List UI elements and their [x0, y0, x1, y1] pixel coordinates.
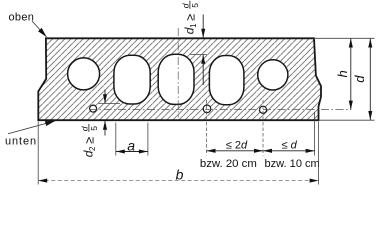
hole oval 4 — [209, 56, 244, 105]
hole-top extension line — [190, 53, 208, 55]
dim d1 lower arrow — [202, 55, 204, 85]
top extension line — [314, 37, 375, 39]
dim 2d extension left — [206, 100, 208, 156]
dim a extension left — [115, 123, 117, 156]
svg-text:unten: unten — [5, 136, 37, 148]
svg-text:2: 2 — [88, 146, 97, 151]
dim 2d extension right — [314, 112, 316, 156]
svg-text:≤ 2d: ≤ 2d — [226, 140, 248, 152]
rebar circle 1 — [90, 105, 97, 112]
slab cross-section body (hatched) — [38, 38, 321, 120]
dim d line vertical — [369, 39, 371, 121]
svg-text:5: 5 — [89, 126, 99, 131]
rebar circle 2 — [203, 105, 211, 113]
svg-text:bzw. 20 cm: bzw. 20 cm — [200, 158, 257, 170]
dim b extension right — [318, 122, 320, 185]
label d2 (rotated) — [79, 124, 98, 157]
dim d2 lower arrow — [104, 121, 106, 136]
hole oval 2 — [114, 55, 150, 104]
svg-text:d: d — [352, 75, 367, 83]
dim b extension left — [37, 122, 39, 185]
dim h line — [350, 39, 352, 110]
dim d1 upper arrow — [202, 15, 204, 38]
hole circle 1 — [68, 58, 100, 90]
label h (rotated) — [335, 70, 350, 77]
dim a extension right — [147, 123, 149, 156]
hole circle 5 — [258, 60, 288, 90]
svg-text:≥: ≥ — [184, 14, 198, 21]
hole-bottom extension line — [99, 103, 121, 105]
hole oval 3 — [158, 54, 194, 104]
oben leader — [32, 21, 47, 37]
unten leader — [8, 121, 55, 134]
svg-text:≥: ≥ — [83, 137, 97, 144]
dim 2d extension mid — [262, 100, 264, 156]
rebar axis line — [89, 109, 351, 111]
svg-text:a: a — [127, 138, 135, 154]
svg-text:1: 1 — [189, 23, 198, 28]
svg-text:5: 5 — [190, 3, 200, 8]
svg-text:bzw. 10 cm: bzw. 10 cm — [265, 158, 320, 170]
oval 3 centerline — [177, 28, 179, 118]
dim a line — [116, 151, 148, 153]
dim 2d line — [207, 150, 264, 152]
svg-text:b: b — [176, 167, 184, 183]
dim d2 upper arrow — [104, 90, 106, 104]
svg-text:oben: oben — [9, 12, 35, 24]
svg-text:≤ d: ≤ d — [282, 140, 298, 152]
dim d line — [263, 150, 315, 152]
rebar circle 3 — [259, 106, 266, 113]
dim b line — [38, 180, 318, 182]
svg-text:h: h — [335, 70, 350, 77]
label d (rotated) — [352, 75, 367, 83]
bottom extension line — [319, 119, 375, 121]
label d1 (rotated) — [180, 1, 199, 34]
